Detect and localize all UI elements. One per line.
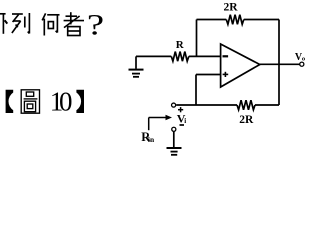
terminal Vo (open circle) bbox=[300, 62, 304, 66]
label Vo bbox=[295, 52, 305, 63]
op-amp plus sign bbox=[223, 72, 229, 77]
svg-text:?: ? bbox=[87, 9, 104, 42]
label Rin bbox=[141, 130, 155, 144]
wire: ground to resistor R bbox=[136, 55, 171, 57]
wire: top feedback right segment bbox=[244, 19, 279, 21]
op-amp U1 triangle bbox=[221, 44, 260, 87]
wire: output bbox=[260, 63, 300, 65]
label Vi bbox=[177, 112, 186, 126]
char zhe bbox=[64, 12, 84, 35]
terminal Vi- (open circle) bbox=[172, 127, 176, 131]
svg-text:i: i bbox=[184, 117, 186, 125]
caption: lens bracket left bbox=[6, 90, 14, 113]
wire: top feedback left segment bbox=[197, 19, 227, 21]
svg-text:2R: 2R bbox=[224, 2, 239, 14]
Rin arrowhead bbox=[166, 115, 173, 120]
svg-text:2R: 2R bbox=[239, 114, 254, 126]
wire: Vi- to ground bbox=[173, 132, 175, 148]
caption: lens bracket right bbox=[76, 90, 84, 113]
wire: R to inverting input bbox=[189, 55, 221, 57]
minus sign at Vi bbox=[180, 124, 185, 126]
svg-text:R: R bbox=[176, 39, 185, 51]
wire: noninverting input horizontal bbox=[196, 74, 221, 76]
Rin arrow bbox=[149, 118, 166, 131]
ground (left, at inverting input network) bbox=[129, 56, 144, 76]
svg-text:in: in bbox=[148, 135, 155, 144]
wire: noninverting input vertical bbox=[195, 75, 197, 106]
svg-text:o: o bbox=[302, 55, 305, 62]
op-amp minus sign bbox=[223, 55, 229, 57]
ground (bottom, at Vi-) bbox=[167, 148, 182, 155]
resistor 2R bottom (zigzag) bbox=[237, 100, 255, 110]
svg-text:0: 0 bbox=[59, 86, 73, 116]
char xia (cut off at left edge) bbox=[0, 14, 7, 34]
terminal Vi+ (open circle) bbox=[172, 103, 176, 107]
wire: right vertical (output node to feedback and 2R bottom) bbox=[278, 20, 280, 106]
wire: 2R bottom to right vertical bbox=[255, 104, 279, 106]
resistor R (zigzag) bbox=[171, 52, 189, 62]
wire: feedback left vertical bbox=[196, 20, 198, 57]
char lie bbox=[12, 13, 30, 34]
plus sign at Vi bbox=[178, 107, 183, 112]
wire: bottom from Vi+ to 2R bbox=[176, 104, 237, 106]
caption: char tu (picture) bbox=[21, 90, 39, 113]
resistor 2R top (zigzag) bbox=[226, 15, 244, 25]
char he bbox=[42, 13, 59, 35]
question text (CJK, drawn as strokes) bbox=[0, 12, 84, 35]
